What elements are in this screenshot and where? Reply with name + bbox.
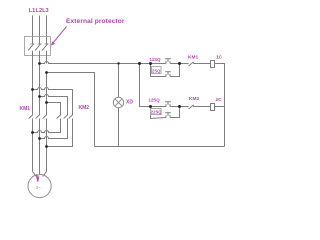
svg-text:KM2: KM2	[79, 105, 90, 111]
svg-text:External protector: External protector	[66, 18, 125, 25]
interlock contact KM1 rung 1	[180, 62, 211, 66]
wire drop to rung 2	[140, 64, 151, 107]
label frame rung 2	[151, 109, 162, 115]
svg-text:KM1: KM1	[20, 106, 31, 112]
node L2 supply lead	[39, 16, 41, 37]
wire phase L1 to KM1	[32, 64, 34, 115]
contactor KM2 main contact pole 2	[64, 115, 68, 119]
breaker pole 3	[42, 37, 48, 64]
svg-text:22SQ: 22SQ	[151, 109, 162, 114]
wire control feed from L2 (hop over L3)	[40, 62, 151, 64]
wire coil 2C to right rail	[215, 106, 225, 108]
lamp XD upper wire	[118, 64, 120, 98]
svg-text:1C: 1C	[216, 55, 223, 61]
wire motor funnel right	[43, 172, 47, 177]
circuit breaker QF box	[25, 37, 51, 56]
wire phase L3 below KM1	[46, 119, 48, 172]
svg-text:KM1: KM1	[188, 54, 198, 60]
wire motor funnel left	[33, 172, 37, 177]
node L3 supply lead	[46, 16, 48, 37]
breaker pole 1	[28, 37, 34, 64]
wire KM2 feed from L3	[47, 103, 61, 115]
latching contact loop rung 1	[151, 64, 180, 77]
svg-text:2SQ: 2SQ	[152, 68, 161, 73]
coil 2C	[211, 104, 215, 111]
wire coil 1C to right rail	[215, 64, 225, 147]
svg-text:12SQ: 12SQ	[149, 98, 161, 103]
label frame rung 1	[152, 67, 162, 74]
contactor KM1 main contact pole 2	[36, 115, 40, 119]
wire phase L3 to KM1	[46, 73, 48, 115]
svg-text:3~: 3~	[36, 185, 42, 190]
annotation leader arrow	[51, 27, 67, 46]
wire control feed from L3 down to bottom rail	[47, 73, 95, 147]
wire phase L2 to KM1	[39, 64, 41, 115]
coil 1C	[211, 61, 215, 68]
svg-text:L3: L3	[42, 8, 49, 14]
junction dots	[31, 62, 181, 148]
wire KM2 pole2 bottom to L2 (hop over L3)	[40, 119, 68, 139]
pushbutton contact rung 2	[151, 102, 180, 107]
contactor KM1 main contact pole 1	[29, 115, 33, 119]
latching contact loop rung 2	[151, 107, 180, 119]
contactor KM1 main contact pole 3	[43, 115, 47, 119]
contactor KM2 main contact pole 3	[69, 115, 73, 119]
contactor KM2 main contact pole 1	[57, 115, 61, 119]
interlock contact KM2 rung 2	[180, 105, 211, 109]
wire phase L1 below KM1	[32, 119, 34, 172]
svg-text:2C: 2C	[216, 97, 223, 103]
lamp XD symbol	[113, 97, 123, 107]
wire KM2 pole1 bottom to L1 (hops over L2 and L3)	[33, 119, 61, 133]
pushbutton contact rung 1	[151, 59, 180, 64]
wire KM2 feed from L2 (hop over L3)	[40, 95, 68, 115]
node L1 supply lead	[32, 16, 34, 37]
svg-text:XD: XD	[126, 100, 133, 106]
motor letter M	[36, 174, 39, 181]
svg-text:L2: L2	[36, 8, 43, 14]
wire KM2 pole3 bottom to L3	[47, 119, 73, 147]
svg-text:L1: L1	[29, 8, 36, 14]
label L1 L2 L3	[29, 8, 49, 14]
motor M circle	[28, 174, 51, 197]
breaker pole 2	[35, 37, 41, 64]
wire KM2 feed from L1 (hops over L2 and L3)	[33, 88, 73, 115]
svg-text:11SQ: 11SQ	[150, 57, 162, 62]
wire phase L2 below KM1	[39, 119, 41, 175]
bottom rail	[95, 146, 225, 148]
lamp XD lower wire	[118, 108, 120, 147]
svg-text:KM2: KM2	[189, 96, 199, 102]
